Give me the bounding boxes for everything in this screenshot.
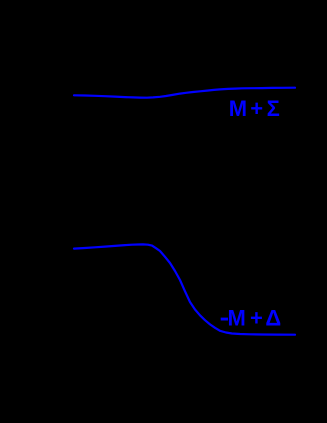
label M + Sigma (229, 96, 280, 121)
svg-text:M: M (228, 305, 246, 330)
curve upper (M + Sigma potential) (74, 88, 295, 98)
curve lower (-M + Delta potential, sigmoid drop) (74, 244, 295, 334)
label -M + Delta (221, 305, 282, 330)
svg-text:Δ: Δ (265, 305, 281, 330)
svg-text:+: + (250, 96, 263, 121)
svg-text:Σ: Σ (267, 96, 280, 121)
svg-text:+: + (250, 305, 263, 330)
svg-text:M: M (229, 96, 247, 121)
